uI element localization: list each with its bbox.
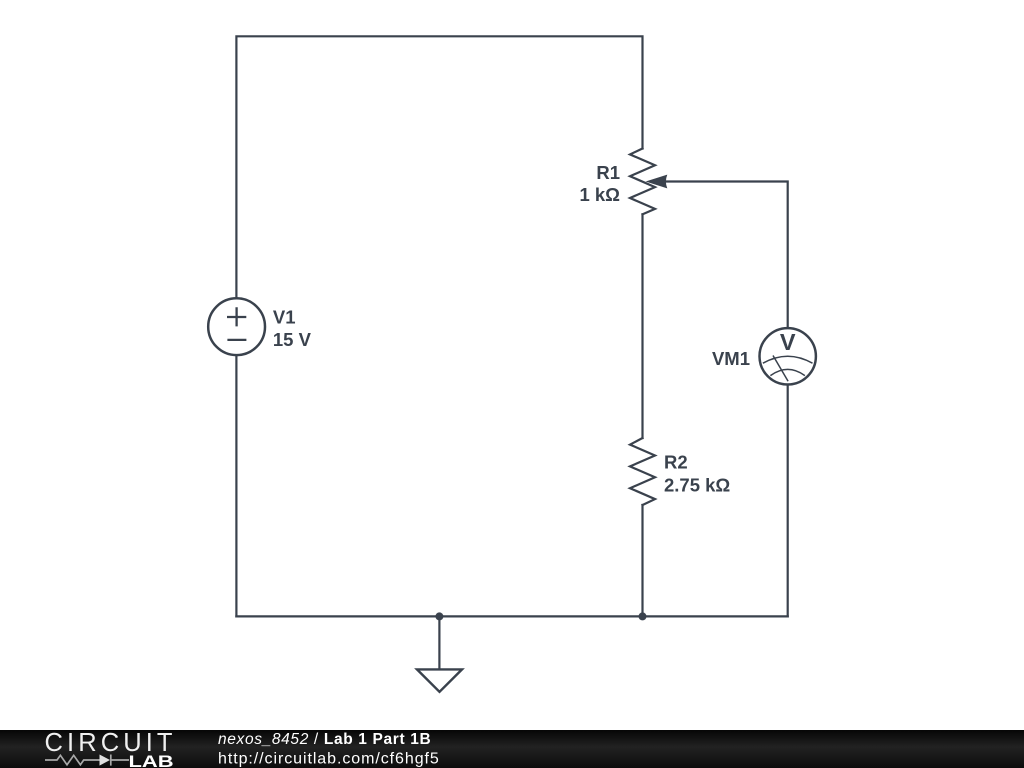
wiper arrow of R1 <box>646 175 668 189</box>
ground symbol triangle <box>417 669 462 691</box>
wire: R1 bottom to R2 top <box>641 214 643 438</box>
VM1 needle <box>773 356 788 382</box>
svg-text:2.75 kΩ: 2.75 kΩ <box>664 474 730 495</box>
svg-text:V: V <box>780 329 796 355</box>
wire: R2 bottom to bottom rail <box>641 505 643 616</box>
logo diode <box>100 755 111 766</box>
resistor R1 (potentiometer body, 1 kOhm) <box>630 149 655 215</box>
wire: ground stem <box>438 616 440 669</box>
voltmeter VM1 circle <box>760 328 816 384</box>
svg-text:V1: V1 <box>273 307 296 328</box>
svg-text:nexos_8452 / Lab 1 Part 1B: nexos_8452 / Lab 1 Part 1B <box>218 731 431 748</box>
wire: wiper to VM1 top <box>666 182 788 328</box>
junction dot at ground <box>435 612 443 620</box>
resistor R2 (2.75 kOhm) <box>630 438 655 505</box>
wire: VM1 bottom to bottom rail <box>787 386 789 617</box>
VM1 meter lower arc <box>770 369 805 375</box>
svg-text:VM1: VM1 <box>712 348 750 369</box>
wire: bottom rail <box>236 615 787 617</box>
voltage source V1 circle <box>208 298 265 355</box>
logo wire with resistor zigzag <box>45 755 100 765</box>
V1 plus sign <box>227 307 246 326</box>
svg-text:http://circuitlab.com/cf6hgf5: http://circuitlab.com/cf6hgf5 <box>218 751 440 768</box>
wire: top rail from V1 top up, across, down to R1 top <box>236 36 642 297</box>
svg-text:15 V: 15 V <box>273 329 312 350</box>
svg-text:LAB: LAB <box>129 753 174 768</box>
VM1 meter upper arc <box>763 356 813 363</box>
junction dot at R2 bottom / bottom rail <box>639 612 647 620</box>
svg-text:R2: R2 <box>664 452 688 473</box>
wire: V1 bottom to bottom rail <box>235 356 237 616</box>
svg-text:1 kΩ: 1 kΩ <box>579 184 620 205</box>
V1 minus sign <box>227 339 246 341</box>
svg-text:R1: R1 <box>596 162 620 183</box>
